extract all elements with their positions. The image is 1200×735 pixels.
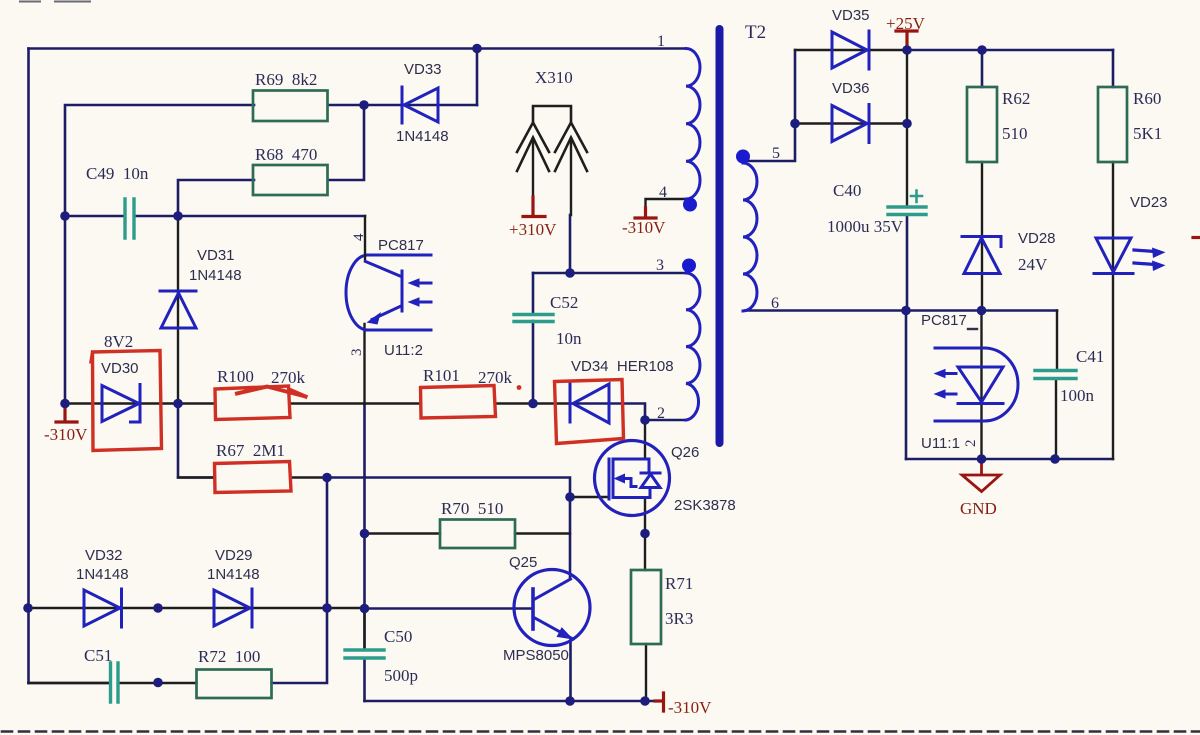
spark gap X310 right electrode chevron [555, 123, 587, 153]
transformer T2 winding 1-4 [686, 49, 700, 200]
wire winding5 to diode branch riser [743, 50, 795, 161]
wire C41 leads [1056, 311, 1057, 460]
node R70 left [360, 529, 370, 539]
zener diode VD30 8V2 [102, 385, 140, 423]
wire R71 bottom lead [645, 644, 647, 701]
opto U11:2 light arrow 2 [416, 301, 431, 304]
wire VD35 row [795, 49, 907, 51]
border dash remnants top-left [20, 1, 90, 3]
node Q26 gate [565, 492, 575, 502]
svg-text:C41: C41 [1076, 347, 1104, 366]
wire U11:1 pin line [980, 311, 982, 460]
svg-text:VD28: VD28 [1018, 230, 1056, 247]
wire C52 top lead [532, 273, 535, 315]
transistor Q26 source arrow [621, 479, 636, 487]
diode VD34 HER108 [570, 384, 609, 423]
node VD36 anode [790, 119, 800, 129]
node R71 / bottom rail [640, 696, 650, 706]
wire VD31 vertical x178 [177, 216, 179, 404]
svg-text:4: 4 [351, 233, 367, 241]
node VD29 right [322, 603, 332, 613]
capacitor C41 100n plates [1035, 371, 1076, 379]
svg-text:VD36: VD36 [832, 80, 870, 97]
wire pin6 rail [745, 309, 1057, 312]
node C49/R68/VD31 [173, 211, 183, 221]
wire R69 right to VD33 node [328, 104, 477, 107]
diode VD32 1N4148 [84, 589, 122, 627]
svg-text:-310V: -310V [44, 425, 88, 444]
wire left frame vertical [27, 49, 30, 684]
opto U11:1 light arrow 2 [943, 393, 956, 396]
svg-text:C51: C51 [84, 646, 112, 665]
svg-text:2: 2 [657, 405, 665, 422]
svg-text:C40: C40 [833, 181, 861, 200]
transformer T2 winding 5-6 [743, 163, 757, 311]
svg-text:1N4148: 1N4148 [207, 566, 260, 583]
transistor Q25 collector [534, 579, 571, 600]
wire node R67-right vertical x327 [272, 478, 328, 684]
node top rail / VD33 branch [472, 44, 482, 54]
wire GND rail [906, 458, 1113, 461]
wire VD36 row [795, 122, 907, 124]
transistor Q25 base bar [531, 589, 535, 629]
svg-text:1N4148: 1N4148 [396, 128, 449, 145]
svg-text:270k: 270k [478, 368, 513, 387]
svg-text:3R3: 3R3 [665, 609, 693, 628]
transformer terminal dot pin 5 [736, 150, 750, 164]
annotation red box resistor R67 [215, 462, 292, 493]
annotation red box resistor R101 [421, 386, 496, 419]
svg-text:-310V: -310V [622, 218, 666, 237]
wire R60 top lead [1112, 50, 1115, 87]
wire C50 top lead [363, 609, 365, 651]
svg-text:R100: R100 [217, 367, 254, 386]
wire Q25 emitter vertical [569, 639, 572, 702]
opto-transistor U11:2 collector pin lead [364, 216, 366, 261]
wire X310 right leg upper [570, 138, 572, 215]
wire VD34 output to pin2 node [570, 404, 645, 421]
opto-LED U11:1 PC817 package outline [935, 348, 1018, 421]
wire R62 to VD28 [981, 162, 983, 311]
wire R62 top lead [981, 50, 984, 87]
svg-text:5: 5 [772, 145, 780, 162]
node Q25 base row [360, 604, 370, 614]
power terminal -310V (left VD30) [56, 404, 77, 423]
diode VD29 1N4148 [214, 589, 252, 627]
svg-text:1000u 35V: 1000u 35V [827, 217, 904, 236]
node C49 left [60, 211, 70, 221]
svg-text:R68 470: R68 470 [255, 145, 317, 164]
LED VD23 [1094, 238, 1133, 274]
wire VD30 row [65, 402, 178, 404]
resistor R71 3R3 box [631, 570, 661, 644]
svg-text:C52: C52 [550, 293, 578, 312]
wire bottom rail -310V [365, 700, 656, 703]
svg-text:VD34 HER108: VD34 HER108 [571, 358, 674, 375]
wire R68 row and riser to VD33 node [178, 105, 364, 216]
node C41 bottom [1050, 454, 1060, 464]
wire C50 bottom to rail corner [363, 658, 366, 701]
wire pin2 to winding [645, 419, 686, 422]
svg-text:24V: 24V [1018, 255, 1048, 274]
svg-text:U11:1: U11:1 [921, 435, 960, 452]
wire PC817 pin3 upper lead [363, 324, 365, 404]
spark gap X310 top bracket [533, 106, 571, 122]
LED VD23 light arrow 2 [1134, 263, 1155, 265]
svg-text:VD23: VD23 [1130, 194, 1168, 211]
node Q25 emitter / bottom rail [565, 696, 575, 706]
svg-text:VD35: VD35 [832, 7, 870, 24]
wire Q25 collector vertical [569, 497, 572, 579]
svg-text:VD30: VD30 [101, 360, 139, 377]
wire R67 left stub [178, 476, 214, 478]
wire C52 bottom lead [532, 321, 535, 404]
svg-text:R72 100: R72 100 [198, 647, 260, 666]
svg-text:1: 1 [657, 33, 665, 50]
node VD28 / U11:1 anode [977, 306, 987, 316]
wire Q26 gate lead [570, 496, 609, 498]
node VD34 / pin2 / Q26 drain [640, 415, 650, 425]
resistor R72 100 box [197, 670, 272, 699]
node R101/C52/VD34 [528, 399, 538, 409]
node Q26 source / R71 [640, 529, 650, 539]
diode VD35 [832, 31, 869, 69]
wire +25V node rail to R60 [907, 49, 1113, 52]
svg-text:100n: 100n [1060, 386, 1095, 405]
spark gap X310 left electrode arrow [517, 138, 549, 172]
node VD36 cathode [902, 119, 912, 129]
ground GND symbol [962, 459, 1000, 492]
svg-text:VD31: VD31 [197, 247, 235, 264]
wire R67 right to node [291, 476, 327, 478]
LED VD23 light arrow 1 [1134, 250, 1155, 252]
wire diode row VD32 VD29 [28, 607, 365, 609]
svg-text:500p: 500p [384, 666, 418, 685]
wire top rail from frame corner to transformer pin 1 [29, 47, 687, 50]
svg-text:2SK3878: 2SK3878 [674, 497, 736, 514]
wire pin3 row to C52 corner [533, 272, 686, 275]
svg-text:VD29: VD29 [215, 547, 253, 564]
svg-text:Q25: Q25 [509, 554, 537, 571]
node U11:1 cathode / GND [977, 454, 987, 464]
transformer terminal dot pin 4 [683, 198, 697, 212]
svg-text:R71: R71 [665, 574, 693, 593]
svg-text:+25V: +25V [886, 14, 926, 33]
resistor R62 510 box [967, 87, 997, 162]
transistor Q26 body diode [641, 474, 660, 488]
svg-text:8V2: 8V2 [104, 332, 133, 351]
transistor Q26 mosfet body [613, 459, 660, 498]
opto-transistor U11:2 emitter arrowhead [367, 312, 382, 325]
annotation red box around VD30 [91, 351, 162, 451]
resistor R68 470 box [253, 165, 328, 195]
svg-text:+310V: +310V [509, 220, 557, 239]
svg-text:VD32: VD32 [85, 547, 123, 564]
node X310 right leg / pin3 row [565, 268, 575, 278]
wire R70 row [365, 532, 571, 534]
diode VD36 [832, 105, 869, 143]
wire VD33 branch vertical at x477 [476, 49, 479, 106]
annotation red box resistor R100 [215, 386, 290, 420]
svg-text:MPS8050: MPS8050 [503, 647, 569, 664]
node -310V VD30 left [60, 399, 70, 409]
svg-text:PC817: PC817 [921, 312, 967, 329]
wire R69 left lead and x65 vertical [65, 105, 254, 404]
node C40 bottom [901, 306, 911, 316]
svg-text:R67 2M1: R67 2M1 [216, 441, 285, 460]
capacitor C50 500p plates [345, 650, 384, 658]
node frame / VD32 [23, 603, 33, 613]
wire X310 right leg lower [569, 215, 572, 273]
node C51/R72 [153, 678, 163, 688]
wire X310 left leg [532, 138, 534, 197]
red clipped mark right edge [1193, 236, 1200, 239]
svg-text:R62: R62 [1002, 89, 1030, 108]
wire PC817 pin3 vertical x364.5 [363, 404, 366, 650]
svg-text:4: 4 [659, 184, 667, 201]
capacitor C40 polarity plus [911, 191, 922, 203]
svg-text:X310: X310 [535, 68, 573, 87]
annotation red strike arrow over R100 [237, 387, 306, 397]
power terminal -310V (bottom rail) [655, 693, 664, 711]
capacitor C52 10n plates [514, 315, 553, 322]
transformer T2 winding 3-2 [686, 273, 700, 420]
svg-text:GND: GND [960, 499, 997, 518]
wire Q26 source to R71 [644, 498, 646, 571]
svg-text:U11:2: U11:2 [384, 342, 423, 359]
opto-transistor U11:2 PC817 package outline [346, 255, 431, 330]
svg-text:10n: 10n [556, 329, 582, 348]
wire Q25 base row [365, 607, 534, 610]
svg-text:1N4148: 1N4148 [189, 267, 242, 284]
transformer T2 core [716, 29, 724, 443]
node VD30/VD31/R100 [173, 399, 183, 409]
svg-text:R69 8k2: R69 8k2 [255, 70, 317, 89]
svg-text:VD33: VD33 [404, 61, 442, 78]
svg-text:Q26: Q26 [671, 444, 699, 461]
wire R100 left lead [178, 402, 214, 404]
capacitor C49 10n plates [125, 199, 134, 238]
svg-text:1N4148: 1N4148 [76, 566, 129, 583]
svg-text:R101: R101 [423, 366, 460, 385]
node R62 top [977, 45, 987, 55]
wire C40 top lead [906, 50, 908, 207]
wire Q26 drain lead [644, 420, 646, 459]
wire R67 right to gate corner [327, 478, 570, 498]
opto-transistor U11:2 transistor element [366, 262, 403, 320]
power terminal +25V [896, 31, 917, 50]
svg-text:R60: R60 [1133, 89, 1161, 108]
diode VD31 1N4148 [160, 291, 196, 328]
wire C49 row to PC817 pin4 [65, 215, 365, 218]
power terminal -310V (pin 4) [635, 208, 656, 218]
wire R101 to C52 node to VD34 [496, 402, 570, 404]
node R67 right [322, 473, 332, 483]
power terminal +310V [523, 197, 545, 217]
transistor Q26 gate plate [608, 459, 611, 499]
node +25V / VD35 [902, 45, 912, 55]
svg-text:2: 2 [963, 440, 979, 448]
svg-text:C50: C50 [384, 627, 412, 646]
annotation red box diode VD34 [555, 380, 624, 444]
svg-text:3: 3 [656, 257, 664, 274]
wire C51 row [29, 682, 197, 684]
wire bottom-left row C51/R72 to corner [29, 682, 111, 685]
wire VD31 node down to R67 row [178, 404, 214, 478]
transistor Q25 emitter [534, 618, 571, 639]
zener diode VD28 24V [962, 237, 1001, 274]
border dashed line bottom [2, 730, 1200, 733]
transistor Q25 MPS8050 circle [514, 570, 590, 646]
transformer terminal dot pin 3 [682, 259, 696, 273]
node VD32/VD29 [153, 603, 163, 613]
svg-text:-310V: -310V [668, 698, 712, 717]
svg-text:3: 3 [349, 349, 365, 357]
label U11:1 pin 1 dash [968, 328, 977, 330]
resistor R70 510 box [440, 520, 515, 549]
resistor R60 5K1 box [1098, 87, 1127, 162]
wire gnd-left vertical x906 [905, 311, 908, 460]
capacitor C40 1000u 35V plates [888, 207, 926, 215]
svg-text:270k: 270k [271, 368, 306, 387]
wire transformer pin4 lead [646, 199, 689, 208]
spark gap X310 right electrode arrow [555, 138, 587, 172]
resistor R69 8k2 box [253, 91, 328, 122]
opto U11:1 light arrow 1 [943, 372, 956, 375]
svg-text:PC817: PC817 [378, 237, 424, 254]
svg-text:C49 10n: C49 10n [86, 164, 149, 183]
svg-text:5K1: 5K1 [1133, 124, 1162, 143]
svg-text:510: 510 [1002, 124, 1028, 143]
wire R60 to VD23 [1112, 162, 1114, 459]
capacitor C51 plates [111, 663, 119, 702]
svg-text:6: 6 [771, 295, 779, 312]
svg-text:R70 510: R70 510 [441, 499, 503, 518]
opto U11:2 light arrow 1 [416, 282, 431, 285]
opto-LED U11:1 diode element [958, 367, 1003, 404]
wire R100 to R101 row [290, 402, 420, 404]
transistor Q26 2SK3878 circle [595, 441, 670, 516]
svg-text:T2: T2 [745, 22, 766, 43]
node R69/VD33/R68 [359, 100, 369, 110]
spark gap X310 left electrode chevron [517, 123, 549, 153]
transistor Q25 emitter arrowhead [557, 627, 574, 639]
annotation red dot near R101 [517, 385, 522, 390]
diode VD33 1N4148 [402, 87, 438, 123]
wire C40 bottom lead [906, 215, 909, 311]
